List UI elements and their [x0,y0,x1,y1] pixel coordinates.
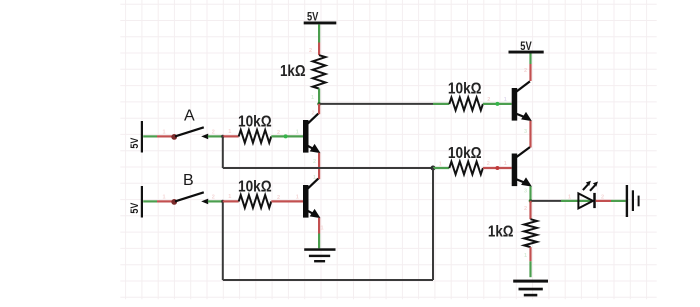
wire R6 to ground (green) [529,261,531,277]
transistor Q4 emitter diagonal [516,179,526,183]
svg-text:2: 2 [601,195,604,201]
connection dot R2-Q1 [284,134,288,138]
wire end stub to R3 (green) [433,103,449,105]
svg-text:10kΩ: 10kΩ [448,145,482,162]
switch A lever (open) [175,127,204,136]
svg-text:1kΩ: 1kΩ [280,63,306,80]
node Q4 out junction [529,199,533,203]
wire stub J1 to R4 (green) [433,167,449,169]
svg-text:1: 1 [568,195,571,201]
svg-text:2: 2 [277,195,280,201]
transistor Q2 collector diagonal [308,179,319,189]
ground GND3 bar3 (rotated) [638,196,640,207]
Q3 collector stub (red) [529,64,531,81]
svg-text:10kΩ: 10kΩ [238,114,272,131]
LED cathode stub (red) [596,200,611,202]
svg-text:1: 1 [439,162,442,168]
wire J1 down [432,168,434,280]
wire 5V to switch B (green) [143,200,157,202]
R6 bottom stub (red) [529,247,531,261]
transistor Q3 emitter diagonal [516,114,526,118]
node A junction dot [221,135,224,138]
R2 pin stub (red) [223,135,239,137]
transistor Q1 collector diagonal [308,114,319,124]
svg-text:2: 2 [312,111,315,117]
transistor Q4 base bar [512,154,518,187]
LED D1 emission arrow 2 [590,185,595,191]
resistor R5 10kΩ zigzag [239,195,272,208]
wire LED to ground (green) [611,200,626,202]
5V supply V1 rail bar [304,22,337,25]
svg-text:1: 1 [296,194,299,200]
transistor Q4 collector diagonal [516,147,530,157]
switch B lever (open) [175,192,204,201]
ground GND1 bar3 [314,260,325,262]
R5 pin stub (red) [223,200,239,202]
transistor Q3 base bar [512,88,518,121]
wire R3 to Q3 base (green) [483,103,512,105]
svg-text:5V: 5V [129,137,141,149]
wire node A horizontal to junction [223,167,433,169]
svg-text:3: 3 [524,189,527,195]
wire R5 to Q2 base (red) [271,200,303,202]
resistor R4 10kΩ zigzag [449,162,483,175]
wire V2 to Q3 (green) [529,54,531,65]
transistor Q1 base bar [303,120,309,153]
switch B pivot dot [171,199,177,205]
bottom wire [223,279,433,281]
node B junction dot [221,200,224,203]
transistor Q1 emitter arrowhead [310,144,321,153]
svg-text:10kΩ: 10kΩ [238,178,272,195]
wire node A down [222,136,224,168]
ground GND3 bar2 (rotated) [632,190,634,211]
svg-text:1: 1 [228,194,231,200]
transistor Q2 emitter arrowhead [310,209,321,218]
svg-text:2: 2 [524,206,527,212]
svg-text:A: A [184,107,195,124]
transistor Q2 emitter diagonal [307,211,314,215]
ground GND2 bar1 [513,280,548,283]
svg-text:B: B [183,172,194,189]
switch A pin stub (red) [157,135,172,137]
svg-text:1: 1 [163,194,166,200]
resistor R3 10kΩ zigzag [449,98,483,111]
LED D1 emission arrow 1 [583,185,588,191]
wire node B down [222,201,224,280]
switch A pivot dot [171,134,177,140]
transistor Q3 collector diagonal [516,81,530,91]
pin stub R1 pin2 (red) [318,43,320,56]
switch A 5V source bar [141,121,143,153]
resistor R6 1kΩ zigzag [524,219,537,247]
transistor Q3 emitter arrowhead [521,112,532,121]
junction dot J1 [431,166,436,171]
svg-text:1: 1 [228,129,231,135]
wire Q2 emitter stub (red) [318,218,320,234]
wire R4 to Q4 base (red) [483,167,512,169]
svg-text:1: 1 [321,226,324,232]
ground GND3 bar1 (rotated) [626,185,628,217]
wire Q4 out to LED (dark) [531,200,562,202]
transistor Q4 emitter arrowhead [521,177,532,186]
svg-text:2: 2 [277,130,280,136]
svg-text:1: 1 [163,129,166,135]
svg-text:2: 2 [309,48,312,54]
svg-text:1: 1 [504,97,507,103]
svg-text:1: 1 [313,175,316,181]
svg-text:1: 1 [296,129,299,135]
svg-text:2: 2 [524,68,527,74]
resistor R1 1kΩ zigzag [313,55,326,88]
wire N1 to R3 (horizontal dark) [319,103,433,105]
connection dot R4-Q4 (red) [495,166,499,170]
switch B output arrow [201,199,208,205]
node N1 junction [317,102,321,106]
wire Q1 emitter to Q2 collector (red) [318,153,320,179]
wire end stub to LED (green) [561,200,593,202]
svg-text:2: 2 [313,159,316,165]
5V supply V2 rail bar [509,51,544,54]
switch A output stub (green) [208,135,223,137]
wire Q2 to ground (green) [318,234,320,249]
svg-text:5V: 5V [129,202,141,214]
wire Q4 out down to R6 (red) [529,201,531,219]
svg-text:1kΩ: 1kΩ [488,223,514,240]
svg-text:2: 2 [487,161,490,167]
wire Q4 emitter stub (green) [529,186,531,201]
switch A output arrow [201,134,208,140]
wire V1 to R1 (green) [318,24,320,42]
transistor Q2 base bar [303,185,309,218]
svg-text:1: 1 [311,95,314,101]
svg-text:3: 3 [524,129,527,135]
Q1 collector stub (red) [318,104,320,114]
wire R1 to node N1 (green) [318,89,320,104]
LED D1 cathode bar [593,193,596,208]
ground GND1 bar1 [304,248,335,251]
switch B 5V source bar [141,186,143,218]
switch B output stub (green) [208,200,223,202]
wire R2 to Q1 base (green) [271,135,303,137]
svg-text:2: 2 [487,97,490,103]
svg-text:1: 1 [504,161,507,167]
LED D1 triangle [578,193,593,208]
svg-text:1: 1 [524,253,527,259]
wire 5V to switch A (green) [143,135,157,137]
switch B pin stub (red) [157,200,172,202]
transistor Q1 emitter diagonal [307,146,314,150]
svg-text:2: 2 [212,194,215,200]
ground GND2 bar2 [519,288,543,291]
ground GND2 bar3 [524,294,538,297]
ground GND1 bar2 [309,255,330,257]
svg-text:10kΩ: 10kΩ [448,80,482,97]
connection dot R3-Q3 [495,102,499,106]
resistor R2 10kΩ zigzag [239,130,272,143]
wire Q3 emitter to Q4 collector (red) [529,121,531,148]
pin number marks (faint) [163,48,605,259]
svg-text:2: 2 [212,129,215,135]
